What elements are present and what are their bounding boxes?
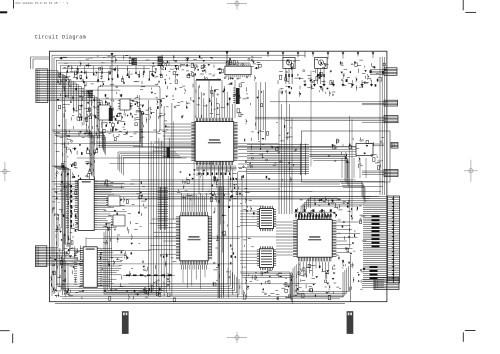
component row bottom-left <box>126 275 130 277</box>
IC502 small <box>260 249 274 268</box>
nested corners bottom-left vertical <box>104 232 160 294</box>
top bus lines <box>52 54 305 56</box>
connector strip right <box>388 196 400 283</box>
svg-text:DSC-1024AG PX-D-25 P3 AM ' ': DSC-1024AG PX-D-25 P3 AM ' ' 1 <box>16 1 69 5</box>
crop mark top-right <box>462 0 464 10</box>
jumper stack 3 <box>88 91 94 92</box>
IC402 DIP <box>83 247 97 287</box>
vertical bus bottom-center <box>218 168 220 298</box>
wires QFP to fan <box>238 145 247 147</box>
small box parts mid-left-lower <box>108 196 120 206</box>
CN101 upper stubs <box>30 57 32 69</box>
X101 legs <box>285 68 287 84</box>
IC601 top nested corners to strip <box>301 206 362 215</box>
crystal X102 <box>315 58 328 69</box>
registration mark left <box>0 171 10 173</box>
bottom long lines <box>60 296 344 298</box>
IC301 left pin wires <box>152 218 176 220</box>
scatter clusters <box>80 75 82 79</box>
right bus drop <box>379 57 381 195</box>
connector right y68 <box>384 68 397 76</box>
IC402 right pin wires <box>101 247 112 249</box>
horizontal DIP top-middle <box>225 66 251 74</box>
IC601 right pin wires <box>336 221 359 223</box>
sub-circuit enclosure mid-right <box>302 131 391 182</box>
strip label blobs <box>372 216 380 218</box>
page number bar 23 <box>122 311 129 334</box>
nested corners mid-left 2b <box>85 132 103 150</box>
comb right of IC402 parts <box>100 249 102 251</box>
ground row top right <box>304 80 306 84</box>
QFP right fan to array <box>247 144 297 146</box>
connector right 3 <box>391 143 398 149</box>
cap row above IC601 <box>295 213 297 219</box>
dark cap column <box>236 88 240 104</box>
crop mark bottom-right <box>465 330 476 332</box>
schematic frame <box>50 51 387 302</box>
registration mark top-center <box>227 3 247 5</box>
crystal X101 <box>283 58 295 69</box>
black tab top-left <box>0 11 7 13</box>
hatch row below IC201 <box>196 166 198 171</box>
registration mark right <box>464 170 478 172</box>
nested corners bottom mid <box>240 272 290 298</box>
nested corners mid-left 1 <box>52 130 90 172</box>
registration mark bottom-center <box>227 337 247 339</box>
bus above IC301 <box>181 193 183 212</box>
feed line osc <box>304 51 306 57</box>
resistor array mid right <box>300 144 302 176</box>
enclosure around knot <box>98 86 160 132</box>
nested corners mid-left 3 <box>96 108 140 142</box>
bottom outer bus line <box>55 303 345 305</box>
nested corners upper-mid <box>118 152 176 170</box>
connector CN102 <box>36 246 47 267</box>
IC201 left pin wires <box>164 123 192 125</box>
IC401 right pin wires <box>98 180 111 182</box>
CN101 fan-out staircase <box>48 70 58 72</box>
IC601 bottom stubs <box>299 262 301 271</box>
IC301 QFP <box>180 216 208 261</box>
nested corners bottom-center <box>217 186 219 298</box>
band corners down right <box>310 155 345 181</box>
small IC top-left 2 <box>120 99 130 110</box>
mid-right IC <box>356 144 373 156</box>
CN102 fan-out <box>47 246 58 248</box>
connector right top <box>384 100 398 106</box>
vertical bus center-left <box>148 100 150 296</box>
enclosure internal wires <box>309 146 357 148</box>
left bus verticals <box>51 55 53 296</box>
cluster above QFP boost <box>211 58 213 60</box>
small IC knot <box>99 105 110 120</box>
IC301 bottom hatch and stubs <box>181 265 183 270</box>
IC501 small <box>260 209 274 229</box>
resistor array right of IC401 <box>160 187 162 230</box>
connector strip left wires <box>363 196 387 198</box>
IC601 QFP <box>297 220 332 258</box>
feed line with arrow left <box>111 53 113 120</box>
connector right 2 <box>384 116 398 123</box>
bottom strip nest right <box>293 268 343 297</box>
page number bar 24 <box>347 311 354 334</box>
wires into connector y68 <box>370 69 384 71</box>
misc long wires <box>60 263 232 265</box>
knot boost mid-left <box>164 120 167 122</box>
IC201 main QFP <box>195 122 234 162</box>
text smudge <box>196 79 221 81</box>
dense zone x155-200 top <box>182 85 185 87</box>
IC401 DIP <box>78 180 94 231</box>
connector right 4 <box>384 169 398 176</box>
connector right bottom <box>374 278 399 290</box>
X102 legs <box>317 68 319 84</box>
bus taps top-left <box>59 66 61 73</box>
comb left of IC402 <box>74 248 77 250</box>
header rule top-left <box>13 0 15 9</box>
connector CN101 <box>36 69 48 103</box>
crop mark bottom-left <box>0 330 10 332</box>
mid band bus <box>52 181 385 183</box>
verticals from oscillator area down <box>255 82 257 130</box>
parts columns beside IC401 <box>66 182 69 184</box>
IC501 IC502 left wires <box>240 210 257 212</box>
verticals mid-right <box>278 90 280 214</box>
jumper stack 1 <box>132 58 138 59</box>
svg-text:Circuit Diagram: Circuit Diagram <box>35 34 87 40</box>
IC201 bottom pin drops <box>198 165 200 194</box>
dark cap bar mid <box>167 147 171 158</box>
jumper stack 2 <box>158 57 164 58</box>
nested corners mid-left 2 <box>52 166 64 244</box>
parts row below IC201 hatch <box>198 173 200 175</box>
wires into right connectors <box>362 102 384 104</box>
bottom strip bundle left <box>57 252 228 284</box>
verticals into IC201 top <box>195 80 197 118</box>
top right frame taps <box>267 51 269 57</box>
feed line center <box>226 51 228 66</box>
IC601 left wires <box>276 221 293 223</box>
